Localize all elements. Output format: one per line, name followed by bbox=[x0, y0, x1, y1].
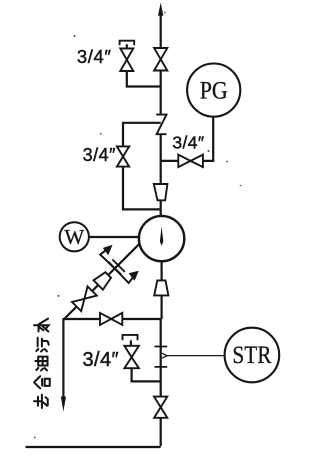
svg-text:STR: STR bbox=[232, 342, 271, 369]
svg-text:3/4″: 3/4″ bbox=[83, 349, 119, 371]
svg-text:3/4″: 3/4″ bbox=[77, 46, 112, 67]
svg-text:W: W bbox=[64, 225, 84, 249]
svg-text:PG: PG bbox=[200, 78, 228, 105]
svg-text:3/4″: 3/4″ bbox=[172, 132, 204, 152]
svg-text:3/4″: 3/4″ bbox=[83, 145, 117, 165]
